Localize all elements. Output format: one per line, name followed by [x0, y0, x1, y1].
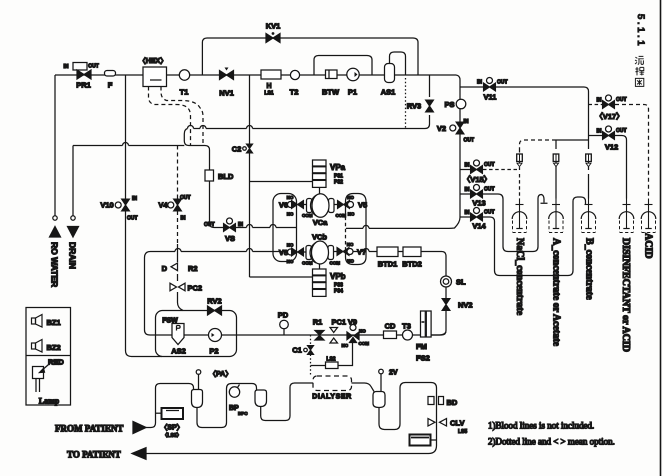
svg-text:BZ2: BZ2 — [47, 343, 61, 352]
blood leak detector SL — [441, 276, 452, 287]
svg-text:BD: BD — [447, 398, 458, 407]
svg-text:IN: IN — [597, 129, 602, 135]
wire: fresh dialysate from V7 — [353, 252, 446, 277]
suction wand A concentrate — [549, 199, 564, 233]
valve V14 — [460, 216, 470, 218]
to patient arrow — [132, 448, 146, 460]
svg-text:H: H — [266, 83, 271, 90]
svg-text:T3: T3 — [402, 322, 411, 331]
svg-text:A_concentrate or Acetate: A_concentrate or Acetate — [551, 238, 562, 347]
svg-text:NO: NO — [347, 195, 354, 200]
svg-text:NC: NC — [342, 343, 349, 348]
valve V13 — [460, 193, 470, 195]
svg-text:NC: NC — [347, 242, 354, 247]
svg-text:BPC: BPC — [238, 411, 248, 416]
air separator AS1 — [385, 64, 395, 83]
svg-text:D: D — [162, 264, 168, 273]
svg-text:PR1: PR1 — [76, 81, 91, 90]
svg-text:V14: V14 — [472, 222, 486, 231]
DRAIN outlet arrow — [68, 227, 79, 238]
svg-text:COM: COM — [302, 261, 313, 266]
wire: main supply line y=75 — [55, 75, 460, 80]
wire: to dialyser blood side — [261, 383, 313, 421]
svg-text:C1: C1 — [292, 346, 302, 355]
wire: PA to blood pump — [197, 384, 257, 428]
wire: VCb to VPb — [319, 264, 321, 269]
wire: arterial blood line — [146, 384, 194, 428]
svg-text:FS2: FS2 — [416, 354, 430, 363]
svg-text:〈V15〉: 〈V15〉 — [463, 174, 491, 184]
svg-text:NV2: NV2 — [458, 301, 473, 310]
svg-text:R1: R1 — [313, 318, 323, 327]
wire: venous return with detectors box — [146, 383, 437, 454]
check valve PC2 — [170, 283, 185, 291]
heater block — [410, 435, 431, 446]
valve V17 (option) — [606, 95, 612, 101]
dashed NaCl column — [519, 149, 521, 199]
svg-text:OUT: OUT — [484, 162, 495, 168]
valve V12 — [606, 126, 612, 132]
svg-text:RO WATER: RO WATER — [50, 242, 60, 287]
svg-text:NO: NO — [359, 329, 366, 334]
svg-text:IN: IN — [64, 64, 69, 70]
balance chamber VCa — [307, 199, 313, 213]
flow line components CD — [384, 331, 397, 339]
wire: VS to chamber trunk — [236, 227, 298, 229]
dashed rinse header to NaCl column — [520, 140, 557, 149]
svg-text:R2: R2 — [188, 264, 198, 273]
flow meter FM FS2 — [421, 311, 426, 337]
svg-text:NC: NC — [287, 212, 294, 217]
svg-text:VS: VS — [225, 234, 235, 243]
svg-text:COM: COM — [359, 341, 370, 346]
svg-text:P1: P1 — [348, 88, 357, 97]
svg-text:V4: V4 — [158, 201, 168, 210]
pressure sensor PS — [456, 99, 466, 109]
from patient arrow — [133, 422, 146, 434]
svg-text:NV1: NV1 — [219, 89, 234, 98]
wire: C2 degas column — [249, 75, 251, 277]
balance chamber wrap right (V5-V7 loop) — [346, 194, 367, 265]
pump P1 — [347, 68, 359, 80]
wire: V14 routing around wands to B port — [483, 197, 586, 276]
svg-text:T1: T1 — [180, 88, 189, 97]
check valve column R2 PC2 — [178, 244, 184, 311]
conductivity cell BTD1 — [377, 247, 398, 257]
svg-text:BTW: BTW — [322, 88, 340, 97]
svg-text:FM: FM — [416, 342, 427, 351]
air separator AS2 — [172, 324, 184, 345]
suction wand disinfectant — [619, 199, 634, 233]
hop bumps on return line — [188, 126, 253, 129]
svg-text:IN: IN — [181, 216, 186, 222]
dashed wire: V17 to acid column — [615, 105, 649, 199]
wire: used-dialysate bus y=251.5 to V8 — [145, 252, 288, 336]
svg-text:2)Dotted line and < > mean opt: 2)Dotted line and < > mean option. — [488, 437, 615, 447]
wire: drain main line y=335 — [157, 332, 446, 335]
bubble detector BD — [428, 397, 434, 405]
pressure stack VPa — [313, 160, 327, 187]
balance chamber wrap left (V6-V8 loop) — [273, 194, 297, 262]
buzzer BZ2 — [32, 340, 43, 353]
relief valve RV3 — [425, 75, 430, 129]
svg-text:〈V17〉: 〈V17〉 — [595, 111, 623, 121]
svg-text:DRAIN: DRAIN — [68, 242, 78, 269]
svg-text:SL: SL — [456, 278, 466, 287]
temp sensor T3 — [403, 330, 413, 340]
dotted AS1-RV3 return — [405, 78, 407, 129]
svg-text:V11: V11 — [484, 93, 497, 102]
svg-text:BZ1: BZ1 — [47, 318, 61, 327]
svg-text:V10: V10 — [100, 201, 113, 210]
relief valve RV2 — [208, 306, 222, 315]
drip chamber mid — [255, 390, 267, 407]
A concentrate column — [555, 161, 557, 199]
svg-text:LS1: LS1 — [264, 91, 273, 97]
svg-text:OUT: OUT — [616, 97, 627, 103]
suction wand B concentrate — [581, 199, 596, 233]
dashed valve V4 column — [177, 146, 179, 245]
needle valve NV1 — [220, 71, 234, 80]
valve VS — [227, 218, 233, 224]
wire: V12 to disinfectant column — [615, 136, 627, 199]
RO WATER inlet arrow — [50, 227, 61, 238]
sensor on A column — [553, 154, 559, 167]
wire: V10 rinse column — [126, 75, 163, 357]
svg-text:AS1: AS1 — [381, 88, 396, 97]
sensor on NaCl column — [517, 154, 523, 167]
wire: concentrate manifold column — [588, 92, 590, 199]
rinse header solid part — [556, 140, 589, 149]
svg-text:NC: NC — [287, 243, 294, 248]
valve KV1 bypass loop — [202, 38, 418, 75]
dashed HEX drain line 2 — [161, 87, 203, 146]
svg-text:IN: IN — [464, 119, 469, 125]
svg-text:OUT: OUT — [464, 138, 475, 144]
wire: VPa feed line — [250, 181, 313, 183]
filter F — [105, 71, 116, 77]
heater BTW — [326, 70, 338, 79]
svg-text:DISINFECTANT or ACID: DISINFECTANT or ACID — [620, 238, 631, 352]
svg-text:Lamp: Lamp — [39, 397, 60, 406]
svg-text:VPa: VPa — [330, 163, 346, 172]
svg-text:NC: NC — [348, 212, 355, 217]
svg-text:IN: IN — [465, 187, 470, 193]
pressure sensor PD — [283, 329, 285, 335]
svg-text:VCa: VCa — [313, 218, 328, 227]
dialyser dashed shell — [313, 376, 352, 391]
pressure stack VPb — [313, 269, 327, 296]
svg-text:COM: COM — [330, 261, 341, 266]
wire: NV2 down to flow line — [431, 311, 446, 335]
svg-text:V13: V13 — [472, 199, 485, 208]
svg-text:COM: COM — [302, 213, 313, 218]
wire: drain outlet column — [72, 146, 74, 216]
pump enclosure loop with RV2 — [156, 311, 237, 357]
svg-text:2V: 2V — [389, 370, 398, 377]
svg-text:V2: V2 — [437, 124, 446, 133]
wire: main box right edge with V2 — [346, 80, 460, 228]
sensor on B column — [586, 154, 592, 167]
pump P2 — [209, 329, 222, 342]
svg-text:〈LS3〉: 〈LS3〉 — [162, 433, 181, 439]
svg-text:V6: V6 — [279, 201, 288, 210]
svg-text:VCb: VCb — [312, 233, 327, 242]
svg-text:BTD2: BTD2 — [402, 260, 422, 269]
hop bump over V10 column — [123, 143, 129, 146]
svg-text:IN: IN — [597, 98, 602, 104]
wire: V13 routing around NaCl wand to A port — [483, 194, 548, 252]
svg-text:NO: NO — [287, 259, 294, 264]
svg-text:IN: IN — [465, 210, 470, 216]
temp sensor T2 — [290, 70, 299, 79]
svg-text:1)Blood lines is not included.: 1)Blood lines is not included. — [488, 421, 594, 431]
needle valve NV2 — [442, 299, 450, 311]
svg-text:P32: P32 — [334, 180, 343, 186]
svg-text:OUT: OUT — [497, 80, 508, 86]
dashed stub to V17 — [589, 104, 603, 106]
svg-text:OUT: OUT — [127, 216, 138, 222]
wire: drain header y=145.5 — [73, 145, 184, 147]
suction wand NaCl — [512, 199, 527, 233]
dashed HEX drain line 1 — [149, 87, 191, 146]
suction wand acid — [641, 199, 656, 233]
svg-text:PC1: PC1 — [332, 318, 347, 327]
stub to V12 — [589, 135, 603, 137]
svg-text:BLD: BLD — [218, 172, 234, 181]
page frame right border — [660, 0, 662, 476]
svg-text:OUT: OUT — [88, 64, 99, 70]
alarm panel box — [26, 308, 71, 406]
CJK char liu — [635, 56, 644, 64]
svg-text:OUT: OUT — [204, 222, 215, 228]
conductivity cell BTD2 — [403, 247, 421, 257]
red lamp — [33, 367, 44, 379]
bleed chamber BLD — [205, 170, 214, 181]
svg-text:P34: P34 — [334, 289, 343, 295]
clamp CLV — [428, 419, 447, 427]
svg-text:IN: IN — [477, 80, 482, 86]
wire: V9 COM to LS2 — [311, 343, 353, 366]
dotted C1 branch — [310, 335, 312, 376]
CJK char cheng — [635, 67, 644, 75]
svg-text:CLV: CLV — [450, 419, 464, 428]
dashed wire: V15 to NaCl column — [483, 169, 520, 171]
svg-text:V12: V12 — [605, 143, 618, 152]
svg-text:RED: RED — [48, 358, 64, 367]
svg-text:5.1.1: 5.1.1 — [635, 14, 646, 48]
svg-text:DIALYSER: DIALYSER — [312, 394, 352, 401]
svg-text:FROM PATIENT: FROM PATIENT — [55, 424, 123, 434]
svg-text:ACID: ACID — [643, 233, 654, 259]
balance chamber VCb — [306, 246, 312, 260]
wire: dialyser to venous bulb — [352, 383, 375, 392]
svg-text:RV2: RV2 — [207, 297, 221, 306]
svg-text:〈PA〉: 〈PA〉 — [209, 370, 232, 378]
valve V5 — [338, 201, 350, 209]
svg-text:T2: T2 — [290, 88, 299, 97]
svg-text:PC2: PC2 — [188, 284, 203, 293]
wire: bypass return line y=128.5 — [184, 129, 425, 171]
svg-text:LS5: LS5 — [458, 429, 467, 435]
blood pump BP — [229, 387, 239, 397]
svg-text:NaCl_concentrate: NaCl_concentrate — [514, 238, 525, 316]
wire: VPa to VCa — [319, 187, 321, 194]
svg-text:NO: NO — [347, 259, 354, 264]
svg-text:AS2: AS2 — [171, 347, 186, 356]
CJK char tu — [635, 78, 643, 86]
svg-text:CD: CD — [385, 322, 396, 331]
AS1 top vent loop — [390, 52, 406, 75]
svg-text:V5: V5 — [358, 201, 367, 210]
svg-text:C2: C2 — [232, 145, 242, 154]
temp sensor T1 — [179, 70, 189, 80]
svg-text:P2: P2 — [209, 347, 218, 356]
level switch H / LS1 — [261, 70, 281, 79]
svg-text:F: F — [108, 81, 113, 90]
wire: RO water inlet column — [54, 75, 56, 216]
svg-text:V8: V8 — [279, 248, 288, 257]
svg-text:BTD1: BTD1 — [378, 260, 398, 269]
clamp SP — [162, 408, 184, 419]
venous chamber bulb — [373, 392, 385, 408]
svg-text:VPb: VPb — [330, 272, 346, 281]
svg-text:IN: IN — [465, 163, 470, 169]
valve V11 on top transfer line — [460, 87, 589, 92]
svg-text:IN: IN — [132, 196, 137, 202]
wire: VPb feed line — [250, 276, 313, 278]
svg-text:COM: COM — [336, 213, 347, 218]
valve V7 — [337, 248, 349, 256]
svg-text:OUT: OUT — [484, 187, 495, 193]
svg-text:B_concentrate: B_concentrate — [584, 238, 595, 300]
valve V8 — [288, 249, 294, 255]
svg-text:RV3: RV3 — [407, 102, 421, 111]
svg-text:PS: PS — [444, 100, 454, 109]
svg-text:OUT: OUT — [616, 128, 627, 134]
svg-text:〈HEX〉: 〈HEX〉 — [139, 57, 167, 65]
sensor 2V — [379, 369, 384, 374]
wire: SP stub — [156, 412, 162, 414]
svg-text:NO: NO — [287, 195, 294, 200]
wire: BLD to VS elbow — [210, 181, 224, 228]
svg-text:KV1: KV1 — [266, 22, 281, 31]
svg-text:PD: PD — [278, 311, 289, 320]
valve V15 (option) — [460, 169, 470, 171]
wire: box bottom bump over wrap — [363, 225, 369, 228]
svg-text:OUT: OUT — [484, 210, 495, 216]
wire: SL to NV2 — [445, 287, 447, 298]
dashed V5-V7 trunk — [345, 211, 347, 249]
svg-text:OUT: OUT — [180, 195, 191, 201]
buzzer BZ1 — [32, 315, 43, 328]
node: RO water port circle — [53, 216, 57, 220]
svg-text:TO PATIENT: TO PATIENT — [67, 450, 121, 460]
bypass loop over BTW and P1 — [314, 56, 372, 76]
svg-text:〈SP〉: 〈SP〉 — [160, 424, 183, 432]
drip chamber PA — [192, 390, 203, 408]
regulator PR1 — [73, 63, 87, 71]
node: drain port circle — [71, 216, 75, 220]
